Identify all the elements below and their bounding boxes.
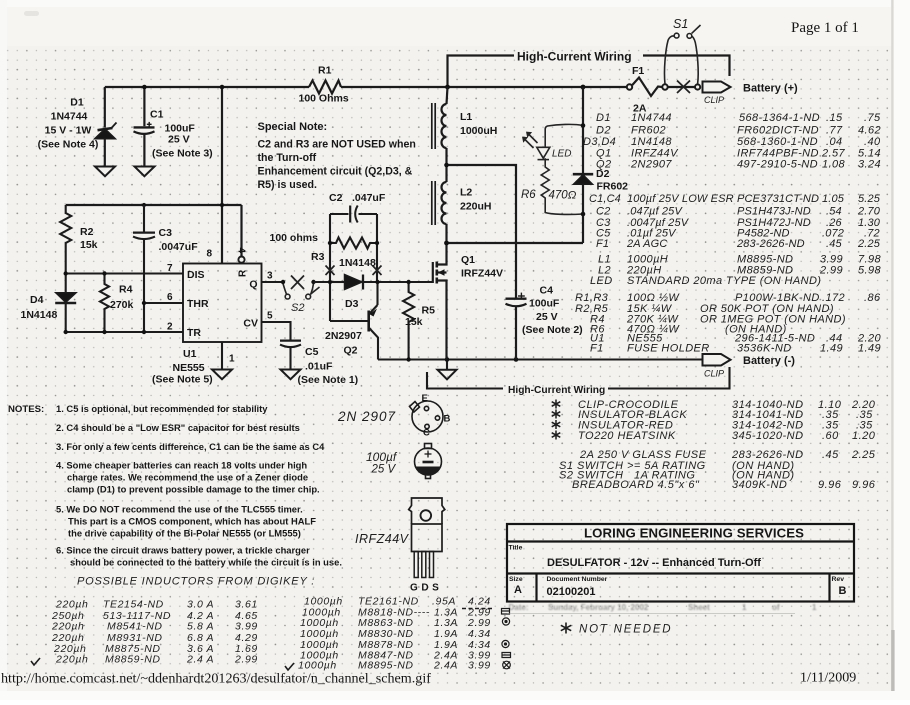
- svg-text:Sunday, February 10, 2002: Sunday, February 10, 2002: [548, 603, 649, 612]
- inductor table left: [51, 599, 258, 666]
- svg-text:15k: 15k: [405, 316, 423, 328]
- svg-text:CV: CV: [243, 318, 258, 330]
- resistor R6: [541, 158, 549, 206]
- svg-text:This part is a CMOS component,: This part is a CMOS component, which has…: [68, 516, 316, 527]
- parts list group 3 inductors/led: [590, 254, 881, 288]
- resistor R5: [403, 282, 414, 360]
- svg-text:IRFZ44V: IRFZ44V: [461, 268, 503, 280]
- svg-text:Enhancement circuit (Q2,D3, &: Enhancement circuit (Q2,D3, &: [258, 166, 413, 178]
- svg-text:the drive capability of the Bi: the drive capability of the Bi-Polar NE5…: [68, 528, 301, 539]
- svg-text:B: B: [839, 585, 847, 597]
- capacitor C3: [143, 205, 145, 232]
- svg-text:R2: R2: [80, 226, 94, 238]
- parts list group 5 accessories: [578, 399, 876, 442]
- svg-text:L1: L1: [460, 111, 472, 123]
- inductor L1: [447, 87, 448, 104]
- ground at MOSFET source rail: [446, 360, 448, 370]
- svg-text:TR: TR: [187, 327, 201, 339]
- svg-text:A: A: [514, 584, 522, 596]
- switch S2: [283, 276, 320, 300]
- svg-text:S2: S2: [291, 302, 304, 314]
- resistor R1: [309, 81, 341, 94]
- svg-text:25 V: 25 V: [168, 134, 190, 146]
- svg-text:R4: R4: [119, 284, 133, 296]
- svg-text:1N4744: 1N4744: [51, 111, 88, 123]
- svg-text:LED: LED: [552, 149, 571, 160]
- svg-text:Rev: Rev: [832, 576, 845, 583]
- svg-text:25 V: 25 V: [536, 311, 558, 323]
- svg-text:4. Some cheaper batteries can: 4. Some cheaper batteries can reach 18 v…: [56, 460, 307, 471]
- svg-text:.01uF: .01uF: [305, 361, 333, 373]
- TO-220 package drawing IRFZ44V: [409, 498, 445, 578]
- svg-text:1. C5 is optional, but recomme: 1. C5 is optional, but recommended for s…: [56, 403, 268, 414]
- svg-text:the Turn-off: the Turn-off: [258, 152, 317, 164]
- svg-text:LORING ENGINEERING SERVICES: LORING ENGINEERING SERVICES: [584, 526, 804, 541]
- svg-text:100uF: 100uF: [529, 298, 560, 310]
- svg-text:C3: C3: [159, 227, 173, 239]
- svg-text:C2 and R3 are NOT USED when: C2 and R3 are NOT USED when: [258, 139, 416, 151]
- svg-text:2N 2907: 2N 2907: [337, 409, 396, 424]
- svg-text:(See Note 5): (See Note 5): [152, 374, 213, 386]
- battery plus clip: [703, 82, 731, 93]
- X mark removed wire: [677, 81, 690, 94]
- svg-text:1: 1: [742, 603, 747, 612]
- diode D3: [330, 281, 345, 283]
- ground of C1: [135, 167, 155, 177]
- capacitor C2: [330, 213, 349, 215]
- svg-text:R6: R6: [521, 189, 536, 201]
- wire DIS rail: [66, 272, 183, 274]
- svg-text:.047uF: .047uF: [352, 192, 386, 204]
- svg-text:NOTES:: NOTES:: [8, 404, 44, 415]
- wire U1 pin1 to ground: [221, 342, 223, 370]
- svg-text:THR: THR: [187, 298, 209, 310]
- svg-text:Q2: Q2: [344, 345, 358, 357]
- svg-text:(See Note 4): (See Note 4): [38, 139, 99, 151]
- X marks not-used verticals: [326, 266, 382, 276]
- svg-text:R: R: [238, 269, 249, 277]
- svg-text:FR602: FR602: [597, 181, 629, 193]
- svg-text:2: 2: [167, 322, 173, 333]
- svg-text:D1: D1: [70, 97, 84, 109]
- wire THR stub: [144, 302, 183, 304]
- faded date row: [509, 603, 818, 612]
- svg-text:R5) is used.: R5) is used.: [258, 179, 318, 191]
- svg-text:25 V: 25 V: [371, 464, 397, 476]
- svg-text:Q: Q: [249, 279, 257, 291]
- ground of C5: [281, 370, 301, 380]
- wire top rail right of R1: [341, 86, 627, 88]
- svg-text:8: 8: [207, 249, 213, 260]
- svg-text:100µf: 100µf: [366, 450, 398, 464]
- svg-text:CLIP: CLIP: [704, 369, 724, 379]
- svg-text:2. C4 should be a "Low ESR" ca: 2. C4 should be a "Low ESR" capacitor fo…: [56, 422, 300, 433]
- parts list group 4 resistors/timer: [575, 292, 881, 355]
- Q2 emitter arrow: [370, 309, 378, 317]
- svg-text:R1: R1: [318, 65, 332, 77]
- svg-text:1/11/2009: 1/11/2009: [800, 671, 856, 686]
- svg-text:C1: C1: [150, 109, 164, 121]
- svg-text:Date:: Date:: [509, 603, 529, 612]
- svg-text:of: of: [772, 603, 780, 612]
- TO-92 package drawing 2N2907: [410, 401, 444, 432]
- node junctions mid: [328, 241, 519, 362]
- capacitor C5: [280, 339, 301, 341]
- svg-text:6. Since the circuit draws bat: 6. Since the circuit draws battery power…: [56, 545, 310, 556]
- wire top Battery+ rail: [105, 86, 309, 88]
- small hand symbols price column: [502, 609, 511, 669]
- svg-text:1000uH: 1000uH: [460, 125, 497, 137]
- wire top rail fuse to X section: [668, 86, 696, 88]
- wire C2/R3 left vertical: [329, 214, 331, 282]
- wire high-current top bracket left: [448, 56, 515, 88]
- Q1 arrow: [438, 269, 445, 275]
- svg-text:270k: 270k: [110, 299, 134, 311]
- parts list group 1 diodes/transistors: [583, 112, 881, 171]
- svg-text:should be connected to the bat: should be connected to the battery while…: [70, 557, 342, 568]
- svg-text:C2: C2: [329, 192, 343, 204]
- svg-text:100 Ohms: 100 Ohms: [299, 93, 349, 105]
- wire TR rail: [66, 331, 183, 333]
- svg-text:B: B: [444, 414, 451, 425]
- svg-text:220uH: 220uH: [460, 201, 492, 213]
- parts list group 2 capacitors/fuse: [589, 193, 881, 250]
- inductor L2: [442, 182, 447, 224]
- svg-text:Battery (-): Battery (-): [743, 355, 795, 367]
- transistor Q1 MOSFET IRFZ44V: [432, 262, 434, 283]
- svg-text:Document Number: Document Number: [547, 576, 608, 583]
- svg-text:High-Current Wiring: High-Current Wiring: [508, 385, 605, 396]
- svg-text:2N2907: 2N2907: [325, 330, 362, 342]
- svg-text:R5: R5: [422, 305, 436, 317]
- svg-text:Sheet: Sheet: [688, 603, 710, 612]
- switch S1: [664, 25, 700, 84]
- svg-text:F12A AGC283-2626-ND.452.25: F12A AGC283-2626-ND.452.25: [596, 238, 881, 250]
- svg-text:Size: Size: [509, 576, 523, 583]
- inductor table right: [298, 596, 491, 672]
- parts list group 6 fuse/switch/breadboard: [559, 449, 876, 491]
- svg-text:100 ohms: 100 ohms: [270, 232, 319, 244]
- svg-text:DIS: DIS: [187, 269, 205, 281]
- zener diode D1: [104, 87, 106, 128]
- wire U1 pin5 CV to C5: [262, 322, 291, 340]
- svg-text:CLIP: CLIP: [704, 95, 724, 105]
- svg-text:E: E: [422, 393, 428, 404]
- wire high-current bottom bracket right: [608, 367, 730, 389]
- svg-text:Title: Title: [509, 545, 523, 552]
- svg-text:02100201: 02100201: [547, 586, 596, 598]
- svg-text:.0047uF: .0047uF: [159, 241, 199, 253]
- svg-text:C5: C5: [305, 346, 319, 358]
- svg-text:IRFZ44V: IRFZ44V: [355, 532, 410, 546]
- star not-needed: [561, 623, 571, 634]
- svg-text:http://home.comcast.net/~ddenh: http://home.comcast.net/~ddenhardt201263…: [1, 671, 431, 687]
- resistor R4: [100, 274, 109, 333]
- svg-text:(See Note 3): (See Note 3): [152, 148, 213, 160]
- svg-text:L2: L2: [460, 187, 472, 199]
- wire VCC drop to U1 pins 8 and 4: [221, 87, 223, 264]
- resistor R2: [60, 205, 71, 274]
- svg-text:High-Current Wiring: High-Current Wiring: [517, 50, 632, 64]
- svg-text:(See Note 1): (See Note 1): [298, 374, 359, 386]
- diode D2: [582, 87, 584, 174]
- pin 4 inversion bubble: [238, 257, 244, 263]
- svg-text:15 V - 1W: 15 V - 1W: [45, 125, 92, 137]
- svg-text:S1: S1: [673, 17, 688, 31]
- svg-text:C2.047µf 25VPS1H473J-ND.542.70: C2.047µf 25VPS1H473J-ND.542.70: [596, 206, 881, 218]
- svg-text:Q1: Q1: [461, 254, 475, 266]
- wire ground rail (battery minus): [378, 358, 702, 360]
- svg-text:NE555: NE555: [173, 362, 205, 374]
- svg-text:4: 4: [236, 248, 247, 254]
- svg-text:D11N4744568-1364-1-ND.15.75: D11N4744568-1364-1-ND.15.75: [596, 112, 881, 124]
- wire L1/L2 tap to C4: [447, 165, 517, 298]
- svg-text:R3: R3: [311, 251, 325, 263]
- wire C2/R3 right vertical: [376, 214, 378, 282]
- asterisk marks accessories: [552, 400, 561, 440]
- node junctions LED branch: [444, 123, 585, 245]
- node top rail junctions: [142, 85, 585, 208]
- checkmark left table: [31, 658, 40, 665]
- title block frame: [507, 524, 854, 602]
- svg-text:5: 5: [267, 311, 273, 322]
- svg-text:Q22N2907497-2910-5-ND1.083.24: Q22N2907497-2910-5-ND1.083.24: [596, 159, 881, 171]
- svg-text:1: 1: [812, 603, 817, 612]
- svg-text:1N4148: 1N4148: [339, 257, 376, 269]
- strike dashes over price row2: [462, 608, 494, 610]
- ground of D1: [95, 167, 115, 177]
- svg-text:Battery (+): Battery (+): [743, 83, 798, 95]
- svg-text:C4: C4: [540, 285, 554, 297]
- battery minus clip: [703, 354, 731, 366]
- ground of U1 pin1: [212, 370, 232, 380]
- svg-text:DESULFATOR - 12v -- Enhanced T: DESULFATOR - 12v -- Enhanced Turn-Off: [547, 557, 761, 569]
- svg-text:D4: D4: [30, 294, 44, 306]
- svg-text:5. We DO NOT recommend the use: 5. We DO NOT recommend the use of the TL…: [56, 504, 303, 515]
- wire drain rail: [447, 242, 584, 244]
- svg-text:1N4148: 1N4148: [21, 309, 58, 321]
- svg-text:G D S: G D S: [410, 583, 439, 594]
- checkmark right table: [285, 663, 294, 670]
- svg-text:15k: 15k: [80, 239, 98, 251]
- svg-text:D3: D3: [345, 298, 359, 310]
- svg-text:clamp (D1) to prevent possible: clamp (D1) to prevent possible damage to…: [67, 484, 320, 495]
- svg-text:Page 1 of 1: Page 1 of 1: [791, 20, 859, 36]
- svg-text:POSSIBLE INDUCTORS FROM DIGIKE: POSSIBLE INDUCTORS FROM DIGIKEY :: [77, 576, 315, 588]
- LED: [523, 124, 583, 214]
- svg-text:1: 1: [229, 354, 235, 365]
- svg-text:3. For only a few cents differ: 3. For only a few cents difference, C1 c…: [56, 441, 325, 452]
- svg-text:NOT NEEDED: NOT NEEDED: [579, 624, 672, 636]
- svg-text:7: 7: [167, 263, 173, 274]
- diode D4: [65, 274, 67, 294]
- capacitor C4: [506, 298, 527, 300]
- capacitor C1: [143, 87, 145, 126]
- transistor Q2 2N2907: [367, 311, 370, 332]
- svg-text:470Ω: 470Ω: [549, 190, 577, 202]
- svg-text:Special Note:: Special Note:: [258, 121, 328, 133]
- svg-text:3: 3: [267, 271, 273, 282]
- svg-text:C: C: [423, 428, 430, 439]
- wire U1 pin3 Q output stub: [262, 281, 284, 283]
- node junctions left column: [63, 271, 146, 334]
- svg-text:D2FR602FR602DICT-ND.774.62: D2FR602FR602DICT-ND.774.62: [596, 125, 881, 137]
- svg-text:U1: U1: [183, 348, 197, 360]
- svg-text:(See Note 2): (See Note 2): [522, 324, 583, 336]
- fuse F1: [627, 84, 632, 89]
- svg-text:charge rates. We recommend the: charge rates. We recommend the use of a …: [67, 472, 308, 483]
- timer U1 NE555 body: [183, 264, 262, 343]
- resistor R3: [330, 238, 377, 249]
- svg-text:F1: F1: [632, 65, 644, 77]
- svg-text:6: 6: [167, 292, 173, 303]
- node pin3 junctions: [281, 280, 316, 284]
- wire high-current top bracket right: [643, 56, 730, 77]
- electrolytic capacitor drawing: [415, 444, 442, 479]
- wire Q output line to gate: [314, 281, 331, 283]
- wire high-current bottom bracket left: [427, 372, 503, 389]
